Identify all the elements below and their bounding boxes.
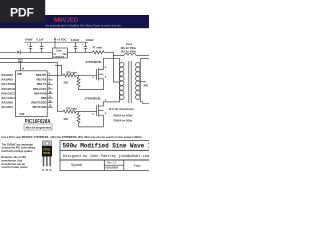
svg-text:The 1000uF are important: The 1000uF are important [2,142,34,146]
svg-text:RA3/AN3: RA3/AN3 [2,78,14,82]
resistor R4 470 ohm [63,110,77,113]
svg-text:RB3-CCP1: RB3-CCP1 [33,87,47,91]
svg-text:to keep the PIC from killing: to keep the PIC from killing [2,146,36,150]
svg-text:30A for 500w: 30A for 500w [121,47,136,50]
svg-text:NF06L: NF06L [43,152,51,155]
svg-text:RA6-OSC2: RA6-OSC2 [2,91,16,95]
capacitor C2 0.1uF [41,42,43,46]
svg-text:D: D [46,168,48,172]
svg-text:470uF: 470uF [25,37,33,41]
diode D1 [17,51,20,54]
mosfet Q1 STP55NF06L [96,69,98,80]
wire chip VDD stub [20,63,22,71]
svg-text:VSS: VSS [20,113,25,116]
svg-text:used for lower power.: used for lower power. [2,165,29,169]
svg-text:Fuse: Fuse [126,42,133,46]
source rail 2 [79,126,104,128]
svg-text:PIC16F628A: PIC16F628A [25,119,51,126]
resistor R3 22k [77,75,80,89]
secondary top lead [140,58,149,60]
PDF badge [0,0,45,22]
svg-text:RB1-RX: RB1-RX [36,78,46,82]
svg-text:Sparkie: Sparkie [71,163,82,167]
schematic small texts [17,37,148,122]
svg-text:22k: 22k [64,81,69,85]
svg-text:12.: 12. [49,101,53,103]
svg-text:500w Modified Sine Wave Invert: 500w Modified Sine Wave Inverter [63,143,150,150]
notes para 3 [2,155,29,169]
svg-text:STP55NF06L: STP55NF06L [85,97,102,101]
capacitor C3 0.22uF [75,42,77,46]
TO-220 package [42,141,51,146]
must be programmed box [24,124,52,130]
svg-text:01/01/2010: 01/01/2010 [106,166,119,169]
svg-text:RB0-INT: RB0-INT [36,73,47,77]
resistor R2 470 ohm [63,74,77,77]
svg-text:*800VA for 500w: *800VA for 500w [113,114,132,117]
svg-text:RA7-OSC1: RA7-OSC1 [2,96,16,100]
rail1 right of regulator [68,51,93,53]
secondary bottom lead [140,102,149,104]
svg-text:L78S05CB: L78S05CB [53,57,64,59]
svg-text:RA4-T0CKI: RA4-T0CKI [2,82,16,86]
website banner [0,15,149,28]
mosfet Q2 STP55NF06L [96,105,98,116]
chip pin names left [2,73,16,109]
svg-text:Com: Com [56,50,61,53]
svg-text:RA1/AN1: RA1/AN1 [2,105,14,109]
wire V1 vertical [57,63,59,112]
center tap vertical [114,52,120,82]
svg-text:240: 240 [144,84,149,88]
source rail 1 [79,89,104,91]
regulator U2 box [53,48,68,58]
svg-text:RB5: RB5 [41,96,47,100]
capacitor C4 100uF [85,42,87,46]
chip U1 PIC16F628A box [16,71,48,117]
transformer primary bus [118,58,120,102]
svg-text:47 ohm: 47 ohm [93,46,103,50]
fuse rail [114,55,125,57]
wire inner corner [55,66,62,76]
svg-text:Page: Page [134,163,141,167]
svg-text:470 ohm: 470 ohm [66,70,78,74]
svg-text:22k: 22k [64,117,69,121]
svg-text:RB7/T1OSI: RB7/T1OSI [33,105,47,109]
svg-text:VDD: VDD [17,73,22,76]
svg-text:10-0-10v Transformer: 10-0-10v Transformer [109,108,134,111]
svg-text:M0VJED: M0VJED [54,17,79,24]
page background [0,0,149,198]
svg-text:G: G [92,113,94,115]
svg-text:470 ohm: 470 ohm [66,107,78,111]
junction dots [20,42,114,76]
transformer T1 secondary winding [136,62,141,67]
svg-text:Designed by John Pantrey john@: Designed by John Pantrey john@w8ubt.com [63,154,149,159]
svg-text:transformer. Any: transformer. Any [2,158,23,162]
transformer T1 core [128,61,130,103]
transformer secondary bus [139,59,141,102]
title block [60,141,150,171]
gate row 2 wire [58,111,64,113]
resistor R5 22k [77,112,80,127]
top rail (+) [25,41,89,43]
svg-text:G: G [92,77,94,79]
gate row 1 wire [47,74,63,76]
capacitor C5 (between rails) [18,59,23,61]
svg-text:13.: 13. [49,106,53,108]
svg-text:11.: 11. [49,97,52,99]
svg-text:0.22uF: 0.22uF [71,38,80,42]
capacitor C1 470uF [30,42,32,46]
resistor R1 47 ohm [93,51,105,54]
svg-text:*700VA for 300w: *700VA for 300w [113,120,132,123]
svg-text:RB2-TX: RB2-TX [37,82,47,86]
svg-text:Rev 1.2: Rev 1.2 [107,161,116,165]
svg-text:transformer can be: transformer can be [2,162,26,166]
chip pin numbers right [49,74,53,108]
svg-text:S: S [50,168,52,172]
svg-text:25A for 400w: 25A for 400w [121,51,136,54]
svg-text:0.1uF: 0.1uF [37,37,44,41]
rail2 [0,58,53,60]
svg-text:itself with voltage spikes.: itself with voltage spikes. [2,149,34,153]
fuse F1 [124,54,136,56]
chip right pin stubs [47,79,52,81]
rail1 +12v left [0,51,17,53]
svg-text:RA2/AN2: RA2/AN2 [2,73,14,77]
svg-text:RB6/T1OSO: RB6/T1OSO [31,100,46,104]
svg-text:+5 VDC: +5 VDC [57,37,67,41]
svg-text:Must be programmed.: Must be programmed. [26,126,52,129]
svg-text:RA5-MCLR: RA5-MCLR [2,87,16,91]
svg-text:STP55NF06L: STP55NF06L [86,60,103,64]
svg-text:PDF: PDF [10,6,34,20]
secondary center tap [140,81,146,83]
notes para 2 [2,142,36,153]
svg-text:RB4-PGM: RB4-PGM [34,91,47,95]
svg-text:100uF: 100uF [86,38,94,42]
svg-text:the essential site for Modifie: the essential site for Modified Sine Wav… [46,23,122,27]
+5VDC arrow [54,40,56,48]
svg-text:10.: 10. [49,92,53,94]
svg-text:RA0/AN0: RA0/AN0 [2,100,14,104]
svg-text:Requires 12v at 40A: Requires 12v at 40A [2,155,27,159]
chip pin names right (inside) [31,73,47,109]
svg-text:Use a 55A Logic MOSFET, STP55N: Use a 55A Logic MOSFET, STP55NF06L, (30v… [2,135,142,139]
rail3 [0,62,58,64]
transformer T1 primary winding [120,62,125,67]
